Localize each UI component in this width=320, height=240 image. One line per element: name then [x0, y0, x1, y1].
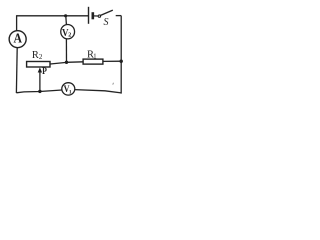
wire top right corner [116, 15, 122, 17]
ammeter A [9, 30, 26, 48]
svg-text:S: S [104, 17, 109, 28]
svg-text:2: 2 [68, 32, 71, 38]
svg-text:R: R [32, 50, 39, 61]
wire left vertical upper [16, 15, 18, 31]
node middle junction [65, 61, 68, 64]
node right middle junction [119, 60, 122, 63]
switch S [98, 10, 113, 28]
wire R1 to right junction [103, 60, 121, 62]
svg-text:2: 2 [39, 53, 43, 61]
wire R2 to middle junction [50, 62, 66, 64]
wire V2 upper lead [65, 16, 68, 25]
wire bottom left [16, 90, 62, 93]
battery cell [89, 7, 99, 24]
slider arrow P [38, 65, 48, 91]
svg-text:1: 1 [93, 52, 97, 60]
voltmeter V2 [61, 24, 75, 38]
wire left vertical lower [15, 47, 18, 93]
speck artifact [112, 83, 115, 85]
node top junction [64, 14, 67, 17]
svg-text:P: P [42, 65, 47, 76]
wire V2 lower lead [65, 39, 67, 63]
svg-text:A: A [13, 30, 22, 46]
svg-text:1: 1 [69, 89, 72, 95]
wire bottom right [75, 90, 122, 93]
wire middle junction to R1 [66, 61, 83, 64]
voltmeter V1 [62, 83, 75, 96]
wire top-left horizontal [17, 15, 89, 17]
rheostat R2 [27, 50, 50, 67]
resistor R1 [83, 50, 103, 65]
wire right vertical [120, 16, 122, 94]
node bottom junction [38, 90, 41, 93]
